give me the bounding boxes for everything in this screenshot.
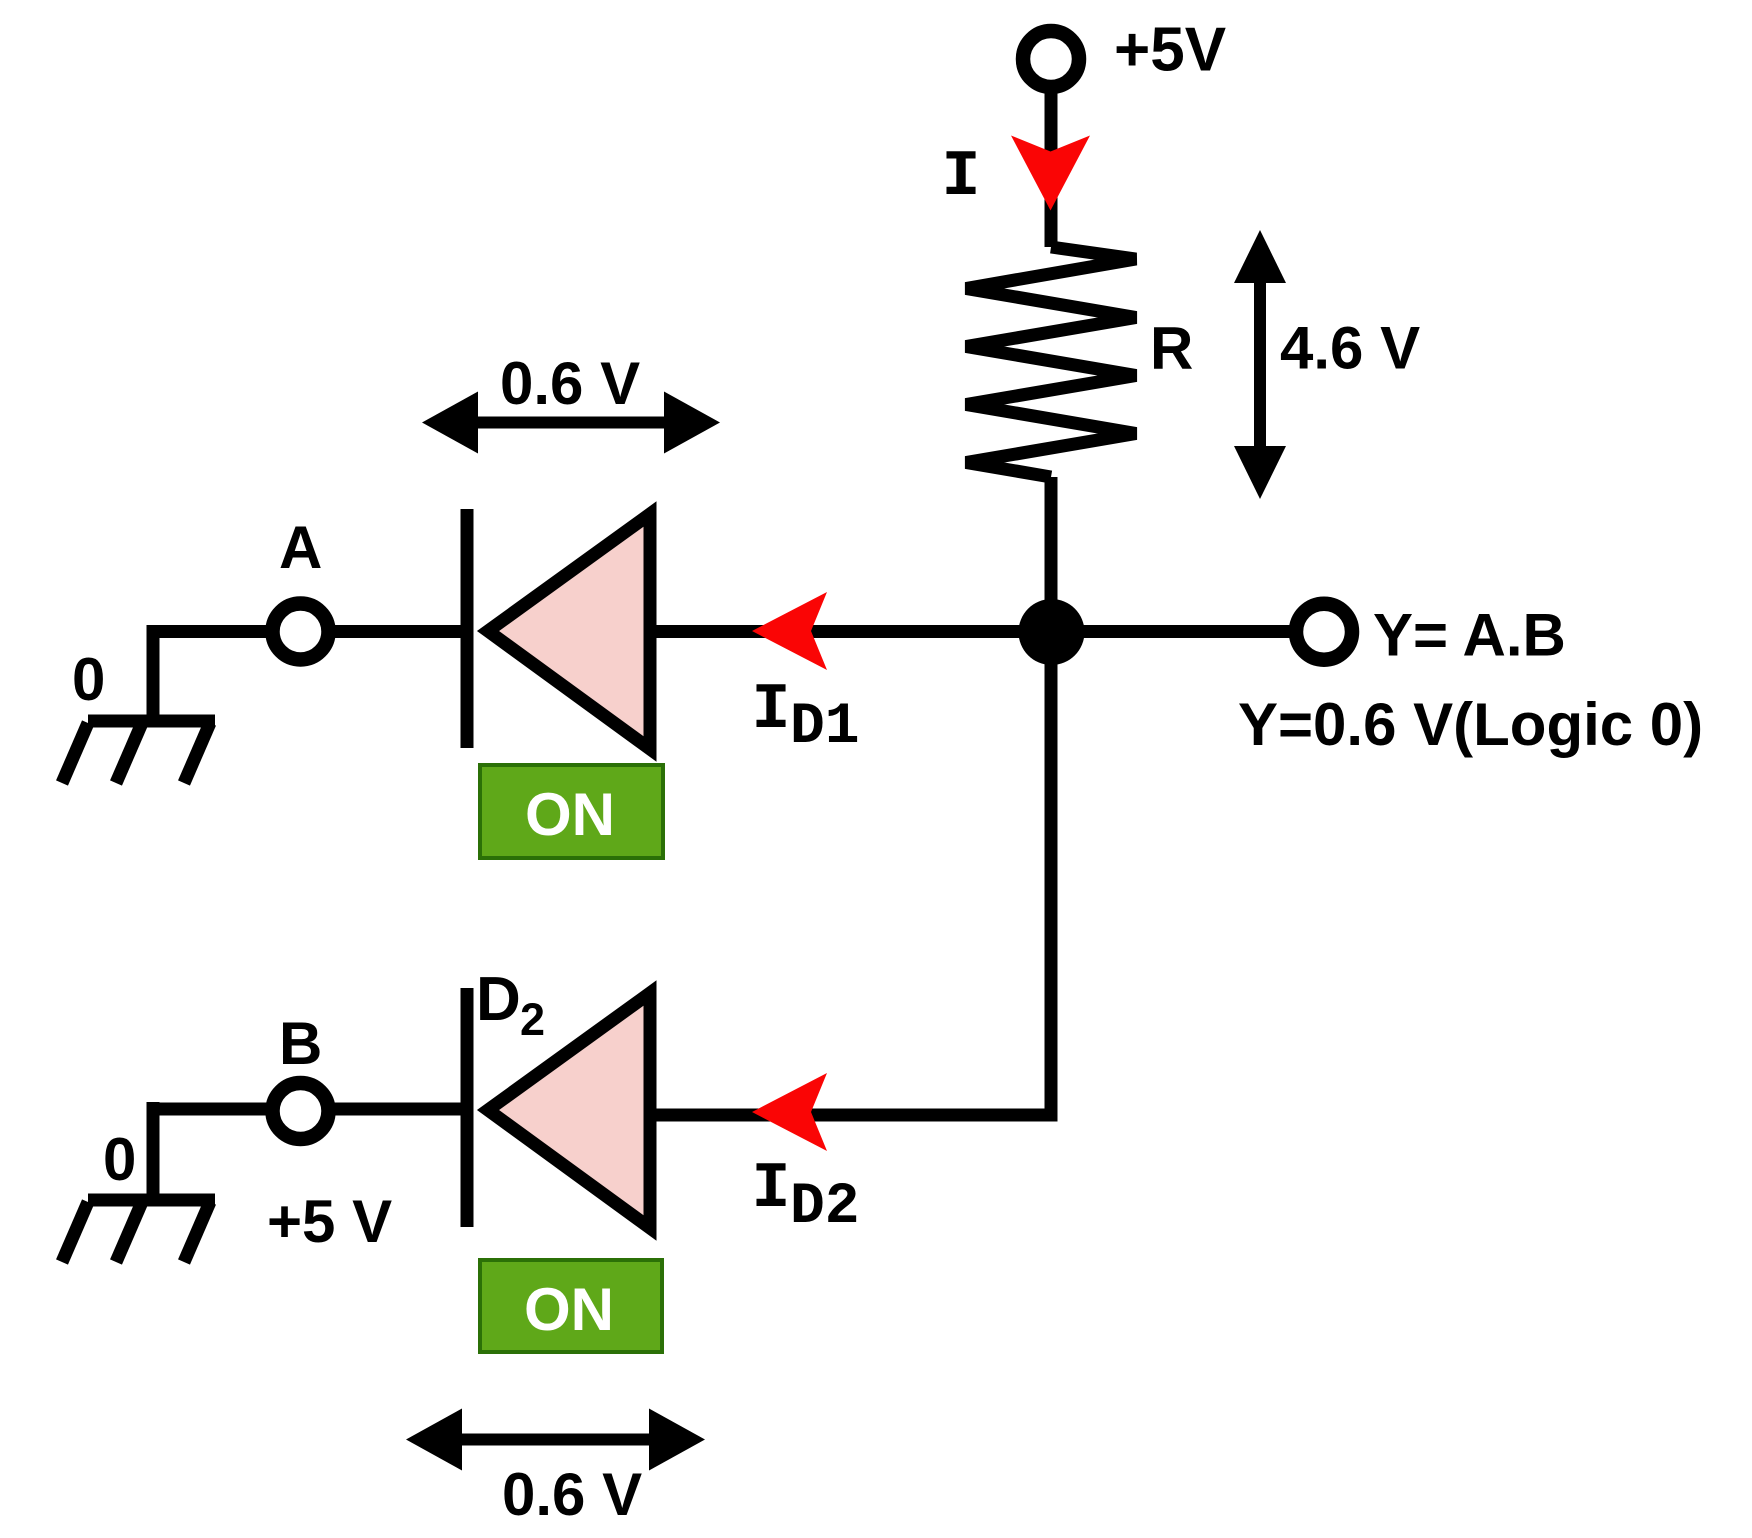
svg-text:I: I bbox=[751, 1152, 790, 1226]
ground (input A) bbox=[62, 721, 215, 783]
wire: +5V terminal to resistor top bbox=[1045, 87, 1058, 247]
svg-text:4.6 V: 4.6 V bbox=[1280, 315, 1420, 382]
svg-text:+5V: +5V bbox=[1114, 16, 1226, 85]
ON box (D2) bbox=[480, 1260, 662, 1352]
diode D2 cathode bar bbox=[461, 988, 474, 1227]
voltage arrow 0.6 V top (double headed, horizontal) bbox=[422, 392, 720, 454]
ON box (D1) bbox=[480, 765, 663, 858]
svg-text:Y=0.6 V(Logic 0): Y=0.6 V(Logic 0) bbox=[1238, 691, 1703, 758]
svg-text:D: D bbox=[476, 965, 521, 1034]
wire: input B down to ground bbox=[147, 1102, 160, 1200]
junction node bbox=[1019, 599, 1085, 665]
terminal B bbox=[273, 1083, 329, 1139]
wire: top horizontal from diode D1 anode through junction to output Y bbox=[652, 625, 1300, 638]
svg-text:+5 V: +5 V bbox=[267, 1188, 392, 1255]
wire: input B to diode D2 cathode bbox=[153, 1103, 467, 1116]
current arrow ID1 (red, left) bbox=[752, 592, 827, 670]
svg-text:A: A bbox=[279, 514, 322, 581]
diode D1 bbox=[488, 514, 650, 749]
svg-text:R: R bbox=[1150, 315, 1193, 382]
svg-text:Y= A.B: Y= A.B bbox=[1373, 602, 1566, 669]
ground (input B) bbox=[62, 1200, 215, 1262]
svg-text:I: I bbox=[941, 140, 980, 214]
svg-text:2: 2 bbox=[520, 994, 545, 1045]
terminal Y bbox=[1296, 604, 1352, 660]
svg-text:D2: D2 bbox=[790, 1175, 860, 1240]
current arrow ID2 (red, left) bbox=[752, 1073, 827, 1151]
wire: vertical from resistor bottom through junction, then left along bottom rail to diode D2 bbox=[652, 477, 1051, 1115]
svg-text:B: B bbox=[279, 1010, 322, 1077]
wire: input A to diode D1 cathode bbox=[153, 625, 467, 638]
voltage arrow 0.6 V bottom (double headed, horizontal) bbox=[406, 1409, 705, 1471]
current arrow I (red, down) bbox=[1011, 136, 1090, 211]
diode D1 cathode bar bbox=[461, 509, 474, 748]
svg-text:I: I bbox=[751, 673, 790, 747]
wire: input A down to ground bbox=[147, 625, 160, 721]
resistor R zigzag bbox=[966, 247, 1136, 477]
terminal A bbox=[273, 604, 329, 660]
svg-text:0.6 V: 0.6 V bbox=[500, 350, 640, 417]
svg-text:0: 0 bbox=[72, 646, 105, 713]
svg-text:D1: D1 bbox=[790, 695, 860, 760]
diode D2 bbox=[488, 993, 650, 1228]
svg-text:0: 0 bbox=[103, 1126, 136, 1193]
svg-text:ON: ON bbox=[525, 781, 615, 848]
voltage arrow 4.6 V (double headed, vertical) bbox=[1234, 230, 1286, 499]
svg-text:0.6 V: 0.6 V bbox=[502, 1461, 642, 1528]
terminal +5V bbox=[1023, 31, 1079, 87]
svg-text:ON: ON bbox=[524, 1276, 614, 1343]
